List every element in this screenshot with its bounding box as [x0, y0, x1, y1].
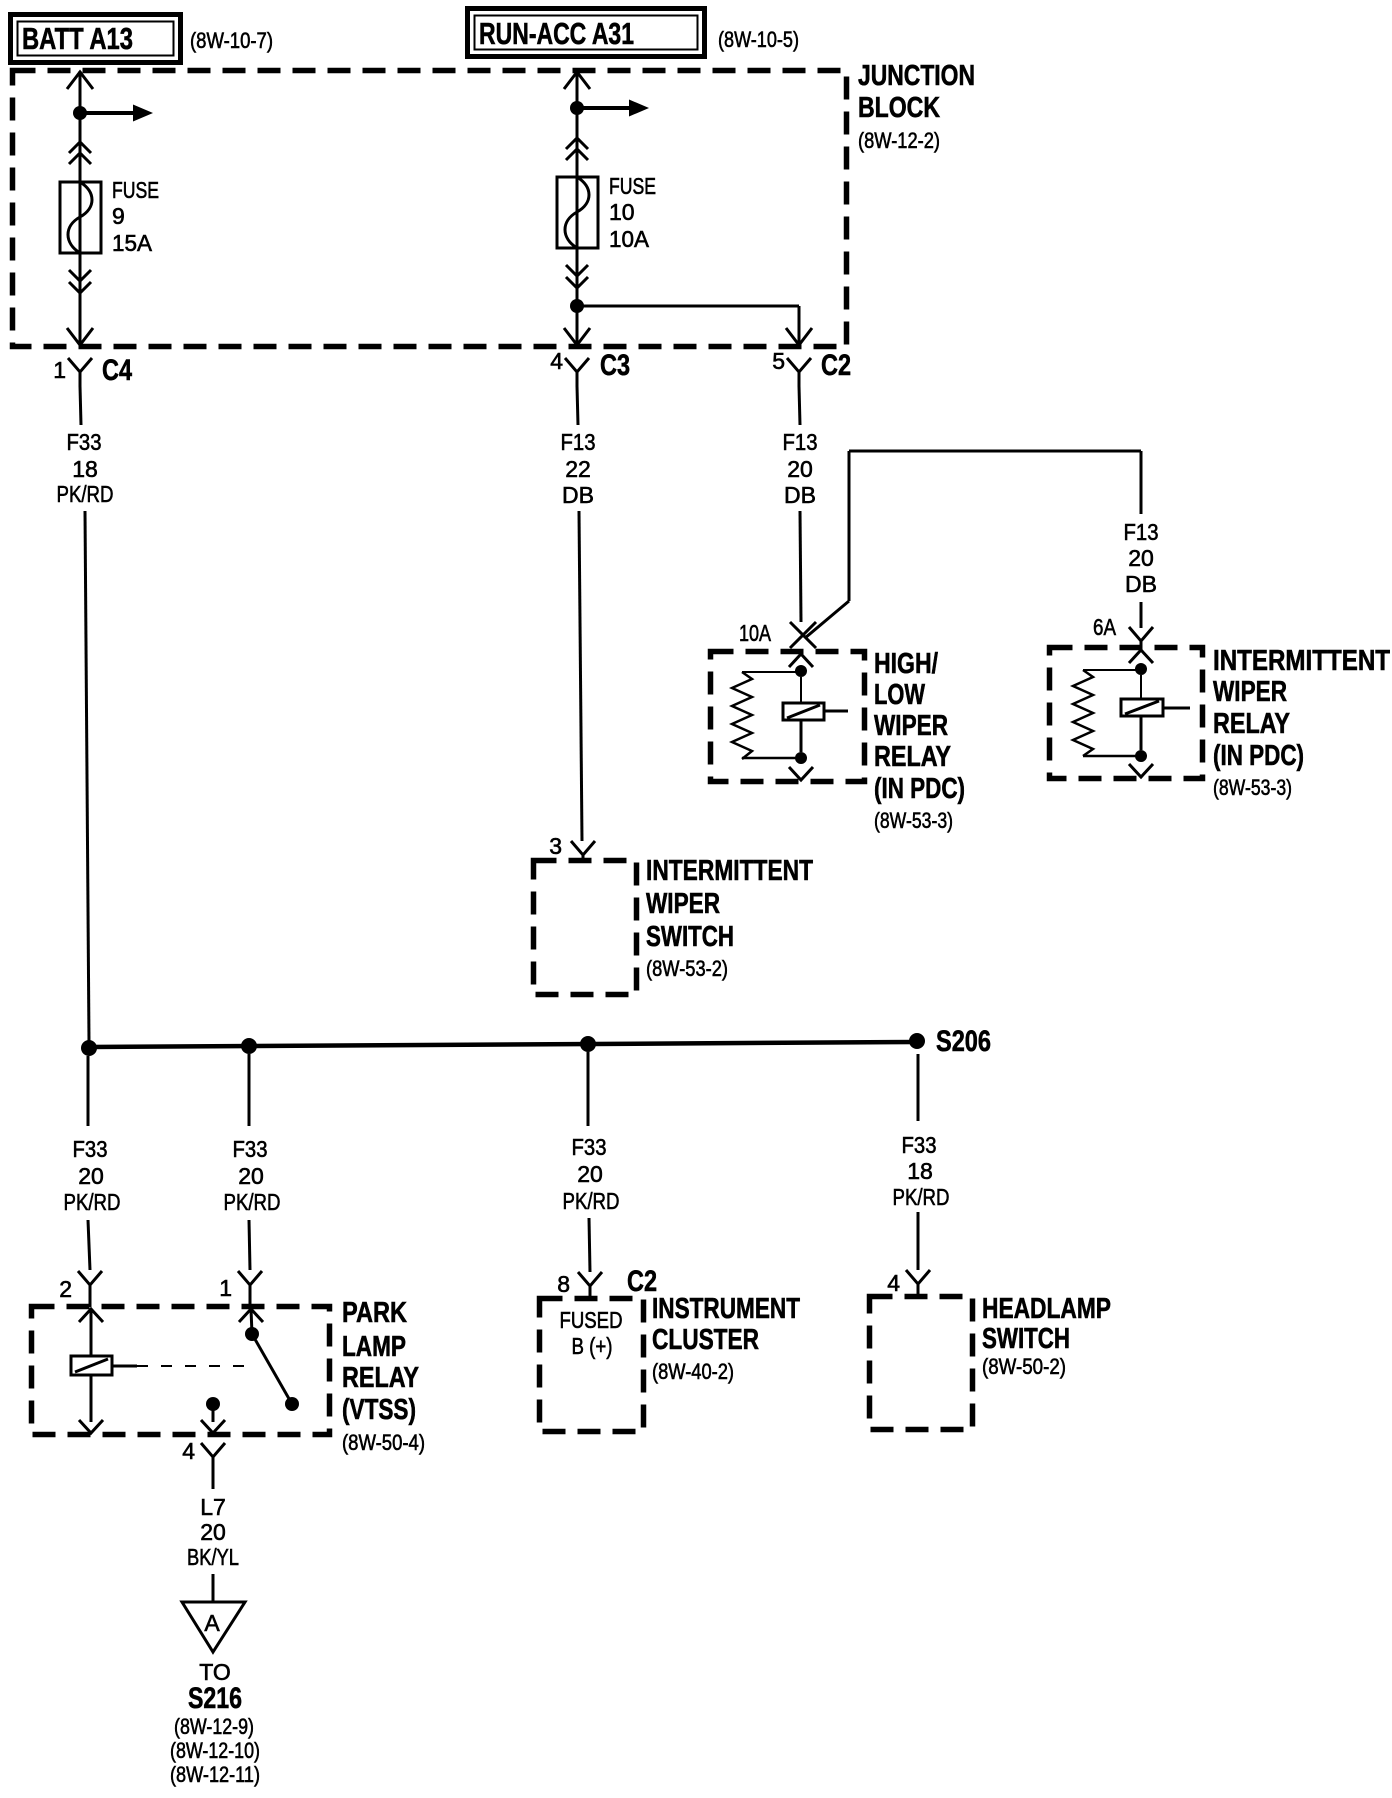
svg-text:1: 1: [53, 357, 66, 383]
svg-text:(8W-40-2): (8W-40-2): [652, 1359, 734, 1384]
connector pin 2 park lamp relay: [59, 1271, 102, 1307]
wire C4 down: [80, 386, 81, 425]
svg-text:INSTRUMENT: INSTRUMENT: [652, 1293, 800, 1325]
svg-text:4: 4: [182, 1438, 195, 1464]
inline connector chevrons below fuse 9: [69, 270, 91, 293]
svg-text:(IN PDC): (IN PDC): [1213, 740, 1304, 772]
resistor (relay coil suppression): [1073, 670, 1093, 756]
park lamp relay switch branch: [239, 1309, 299, 1411]
svg-text:(IN PDC): (IN PDC): [874, 773, 965, 805]
svg-text:PK/RD: PK/RD: [893, 1184, 950, 1210]
inline connector chevrons below fuse 10: [566, 265, 588, 288]
svg-text:F13: F13: [561, 429, 596, 455]
park lamp relay coil branch: [71, 1309, 137, 1433]
svg-text:3: 3: [549, 833, 562, 859]
wire label F13 22 DB: [561, 429, 596, 508]
node BATT feed tap with arrow: [73, 105, 153, 122]
node splice junction 1: [81, 1040, 97, 1056]
svg-text:PK/RD: PK/RD: [64, 1189, 121, 1215]
svg-text:(8W-10-5): (8W-10-5): [718, 27, 799, 52]
svg-text:20: 20: [577, 1161, 603, 1187]
wire C2 pin 5 down: [799, 386, 800, 425]
svg-text:PARK: PARK: [342, 1297, 407, 1329]
svg-text:RELAY: RELAY: [1213, 708, 1290, 740]
svg-text:5: 5: [772, 348, 785, 374]
svg-text:2: 2: [59, 1276, 72, 1302]
svg-text:WIPER: WIPER: [646, 888, 720, 920]
svg-text:LAMP: LAMP: [342, 1331, 406, 1363]
svg-text:C4: C4: [102, 354, 132, 387]
wire to intermittent wiper relay connector: [1140, 602, 1143, 628]
svg-text:BLOCK: BLOCK: [858, 92, 940, 124]
high/low wiper relay internals: [732, 654, 848, 780]
svg-text:HEADLAMP: HEADLAMP: [982, 1293, 1111, 1325]
wire label F13 20 DB (relay branch): [1124, 519, 1159, 597]
svg-text:C3: C3: [600, 349, 630, 382]
fuse 9 15A: [60, 182, 101, 253]
wire branch to intermittent wiper relay: [805, 451, 1141, 638]
relay coil K1: [71, 1356, 112, 1375]
svg-text:20: 20: [200, 1519, 226, 1545]
connector C2 pin 8 instrument cluster: [557, 1265, 657, 1299]
svg-text:SWITCH: SWITCH: [982, 1323, 1070, 1355]
connector C3 pin 4: [550, 348, 630, 386]
svg-text:18: 18: [907, 1158, 933, 1184]
inline connector chevrons above fuse 10: [566, 138, 588, 160]
mechanical link (dashed) coil to switch: [137, 1365, 248, 1367]
fuse 10 10A: [557, 177, 598, 248]
wire down to cluster connector: [589, 1218, 590, 1272]
intermittent wiper switch box: [534, 861, 637, 995]
svg-text:WIPER: WIPER: [874, 710, 948, 742]
svg-text:(8W-50-2): (8W-50-2): [982, 1354, 1066, 1379]
svg-text:LOW: LOW: [874, 679, 925, 711]
arrow into bottom edge (C2 branch): [786, 328, 812, 345]
svg-text:DB: DB: [562, 482, 594, 508]
intermittent wiper relay label: [1213, 645, 1390, 800]
wire down to pin 1 connector: [249, 1220, 250, 1270]
svg-text:S216: S216: [188, 1682, 242, 1715]
svg-text:10A: 10A: [739, 620, 772, 646]
svg-text:RELAY: RELAY: [342, 1362, 419, 1394]
park lamp relay label: [342, 1297, 425, 1455]
instrument cluster internal label FUSED B(+): [560, 1307, 623, 1359]
connector 10A at high/low wiper relay: [739, 620, 816, 648]
high/low wiper relay label: [874, 648, 965, 833]
svg-text:(8W-53-3): (8W-53-3): [874, 808, 953, 833]
fuse 10 value label: [609, 173, 656, 252]
node splice junction 3: [580, 1036, 596, 1052]
arrow into bottom edge (BATT branch): [67, 328, 93, 345]
svg-text:10: 10: [609, 199, 635, 225]
wire C2 down to relay connector: [800, 511, 801, 622]
svg-text:C2: C2: [821, 349, 851, 382]
svg-text:F13: F13: [1124, 519, 1159, 545]
wire to off-page connector A: [212, 1574, 215, 1601]
connector pin 4 headlamp switch: [887, 1270, 930, 1297]
headlamp switch label: [982, 1293, 1111, 1379]
wire BATT A13 feed into junction block: [67, 71, 93, 345]
svg-text:DB: DB: [1125, 571, 1157, 597]
feed box RUN-ACC A31: [468, 9, 705, 57]
wire label F33 20 PK/RD (pin 1): [224, 1136, 281, 1215]
feed box BATT A13: [11, 15, 181, 63]
connector C4 pin 1: [53, 354, 132, 387]
wire splice to headlamp switch: [917, 1054, 920, 1121]
connector C2 pin 5: [772, 348, 851, 386]
svg-text:15A: 15A: [112, 230, 153, 256]
svg-text:(8W-53-3): (8W-53-3): [1213, 775, 1292, 800]
park lamp relay box: [32, 1307, 330, 1435]
svg-text:20: 20: [78, 1163, 104, 1189]
park lamp relay pin 4 branch: [201, 1397, 225, 1433]
headlamp switch box: [870, 1297, 973, 1430]
connector pin 4 below park lamp relay: [182, 1438, 225, 1489]
svg-text:RELAY: RELAY: [874, 741, 951, 773]
wire label F33 18 PK/RD (headlamp switch): [893, 1132, 950, 1210]
instrument cluster box: [540, 1299, 644, 1432]
svg-text:BATT A13: BATT A13: [22, 21, 133, 56]
node splice junction 2: [241, 1038, 257, 1054]
svg-text:FUSE: FUSE: [609, 173, 656, 199]
svg-text:F33: F33: [902, 1132, 937, 1158]
svg-text:A: A: [204, 1610, 220, 1636]
svg-text:PK/RD: PK/RD: [224, 1189, 281, 1215]
svg-text:L7: L7: [200, 1494, 226, 1520]
svg-text:PK/RD: PK/RD: [57, 481, 114, 507]
svg-text:JUNCTION: JUNCTION: [858, 60, 975, 92]
svg-text:PK/RD: PK/RD: [563, 1188, 620, 1214]
junction block dashed border: [13, 71, 847, 347]
intermittent wiper relay box: [1050, 648, 1203, 779]
svg-text:F33: F33: [572, 1134, 607, 1160]
relay coil: [783, 703, 824, 720]
svg-text:CLUSTER: CLUSTER: [652, 1324, 759, 1356]
junction block label: [858, 60, 975, 153]
svg-text:DB: DB: [784, 482, 816, 508]
svg-text:(VTSS): (VTSS): [342, 1394, 416, 1426]
off-page connector A (triangle): [182, 1602, 245, 1652]
wire label F33 20 PK/RD (pin 2): [64, 1136, 121, 1215]
svg-text:(8W-12-11): (8W-12-11): [170, 1762, 260, 1787]
svg-text:WIPER: WIPER: [1213, 676, 1287, 708]
svg-text:(8W-12-9): (8W-12-9): [174, 1714, 254, 1739]
wire RUN-ACC A31 feed into junction block: [564, 71, 590, 345]
svg-text:10A: 10A: [609, 226, 650, 252]
svg-text:20: 20: [787, 456, 813, 482]
arrow into bottom edge (C3 branch): [564, 328, 590, 345]
svg-text:RUN-ACC A31: RUN-ACC A31: [479, 16, 634, 51]
wire junction to C2 drop: [577, 306, 799, 345]
high/low wiper relay box: [711, 652, 865, 782]
svg-text:4: 4: [550, 348, 563, 374]
wire label F33 18 PK/RD: [57, 429, 114, 507]
svg-text:B (+): B (+): [572, 1333, 613, 1359]
svg-text:SWITCH: SWITCH: [646, 921, 734, 953]
svg-text:FUSED: FUSED: [560, 1307, 623, 1333]
svg-text:F33: F33: [73, 1136, 108, 1162]
svg-text:INTERMITTENT: INTERMITTENT: [1213, 645, 1390, 677]
wire splice to park lamp relay pin 1: [248, 1054, 251, 1126]
svg-text:(8W-12-2): (8W-12-2): [858, 128, 940, 153]
intermittent wiper relay internals: [1073, 650, 1190, 777]
svg-text:F33: F33: [67, 429, 102, 455]
node S206: [909, 1025, 991, 1058]
svg-text:F13: F13: [783, 429, 818, 455]
svg-text:INTERMITTENT: INTERMITTENT: [646, 855, 813, 887]
connector pin 1 park lamp relay: [219, 1271, 262, 1307]
svg-text:8: 8: [557, 1271, 570, 1297]
svg-text:(8W-50-4): (8W-50-4): [342, 1430, 425, 1455]
intermittent wiper switch label: [646, 855, 813, 981]
wire down to headlamp switch connector: [917, 1212, 920, 1270]
wire label F13 20 DB (C2 branch): [783, 429, 818, 508]
svg-text:20: 20: [1128, 545, 1154, 571]
connector 3 at intermittent wiper switch: [549, 833, 595, 861]
svg-text:18: 18: [72, 456, 98, 482]
svg-text:4: 4: [887, 1270, 900, 1296]
wire label F33 20 PK/RD (cluster): [563, 1134, 620, 1214]
svg-text:(8W-10-7): (8W-10-7): [190, 28, 273, 53]
svg-text:HIGH/: HIGH/: [874, 648, 938, 680]
fuse 9 value label: [112, 177, 159, 256]
wire C3 to intermittent wiper switch: [579, 511, 582, 841]
svg-text:F33: F33: [233, 1136, 268, 1162]
wire label L7 20 BK/YL: [187, 1494, 239, 1570]
wire splice to park lamp relay pin 2: [87, 1056, 90, 1126]
svg-text:FUSE: FUSE: [112, 177, 159, 203]
relay coil: [1121, 699, 1163, 716]
svg-text:(8W-53-2): (8W-53-2): [646, 956, 728, 981]
splice S206 bus: [89, 1042, 917, 1047]
destination label TO S216: [170, 1659, 260, 1787]
svg-text:1: 1: [219, 1275, 232, 1301]
svg-text:BK/YL: BK/YL: [187, 1544, 239, 1570]
svg-text:S206: S206: [936, 1025, 991, 1058]
svg-text:22: 22: [565, 456, 591, 482]
resistor (relay coil suppression): [732, 672, 752, 759]
svg-text:20: 20: [238, 1163, 264, 1189]
node fuse 10 output junction: [570, 299, 584, 313]
inline connector chevrons above fuse 9: [69, 142, 91, 164]
instrument cluster label: [652, 1293, 800, 1384]
node RUN-ACC feed tap with arrow: [570, 100, 649, 117]
wire splice to instrument cluster: [587, 1052, 590, 1126]
wire C3 down: [577, 386, 578, 425]
wire down to pin 2 connector: [88, 1220, 90, 1270]
svg-text:6A: 6A: [1093, 614, 1117, 640]
svg-text:(8W-12-10): (8W-12-10): [170, 1738, 260, 1763]
connector 6A at intermittent wiper relay: [1093, 614, 1153, 648]
svg-text:9: 9: [112, 203, 125, 229]
wire F33 to splice S206: [85, 511, 89, 1042]
